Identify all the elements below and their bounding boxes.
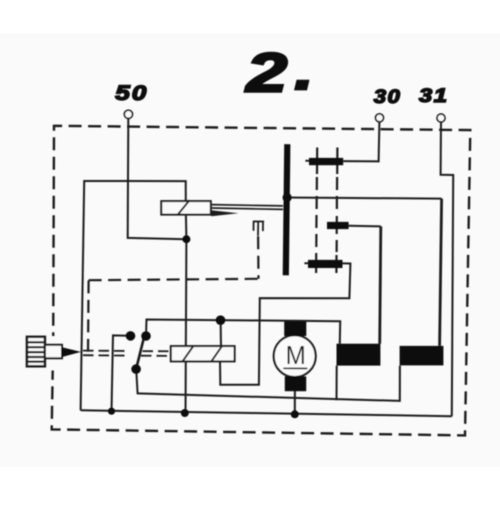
svg-text:30: 30: [374, 86, 402, 107]
svg-text:31: 31: [419, 85, 448, 106]
svg-text:2: 2: [244, 41, 287, 103]
svg-text:50: 50: [115, 81, 148, 105]
svg-text:M: M: [286, 342, 306, 371]
